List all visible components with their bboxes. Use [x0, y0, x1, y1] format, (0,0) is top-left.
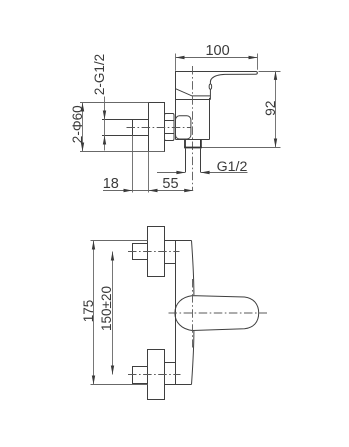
body bottom edge: [176, 139, 210, 141]
body right edge lower: [192, 331, 194, 385]
175 bottom extension line: [91, 384, 148, 386]
body right edge: [209, 98, 211, 140]
18/55 extension line at x132: [132, 136, 134, 193]
dimension 100 line: [176, 56, 258, 59]
svg-text:92: 92: [263, 101, 278, 116]
bottom union centerline: [128, 374, 181, 376]
18/55 dimension line: [103, 189, 193, 192]
body right edge upper: [192, 241, 194, 296]
inlet pipe top edge: [102, 119, 149, 121]
lower view vertical centerline: [192, 279, 194, 348]
inlet pipe bottom edge: [102, 135, 149, 137]
2-Phi60 dimension line: [81, 103, 84, 152]
svg-text:2-G1/2: 2-G1/2: [92, 54, 107, 95]
svg-text:55: 55: [162, 176, 178, 192]
dimension 175 line: [92, 241, 95, 385]
extension line right of 100: [257, 54, 259, 70]
handle capsule lower view: [175, 296, 259, 331]
wall flange rect: [149, 103, 165, 152]
dimension 150+-20 line: [111, 252, 114, 375]
svg-text:175: 175: [81, 300, 96, 323]
extension line top of 92: [259, 71, 281, 73]
svg-text:100: 100: [205, 43, 229, 59]
svg-text:G1/2: G1/2: [217, 159, 248, 175]
body cap slant: [176, 89, 211, 96]
inlet centerline: [127, 127, 191, 129]
inlet pipe divider: [132, 120, 134, 136]
top union nut: [148, 227, 165, 277]
lever handle: [176, 72, 258, 100]
flange bottom extension line: [80, 151, 165, 153]
outlet collar thick: [184, 140, 202, 148]
lever butt ellipse: [209, 84, 212, 89]
bottom union boss: [165, 363, 176, 385]
body left edge: [175, 89, 177, 140]
G1/2 leader arrows: [157, 171, 248, 174]
extension line left of 100: [175, 54, 177, 71]
hex nut top view: [165, 114, 175, 141]
18/55 extension line at x148: [148, 152, 150, 193]
2-G1/2 leader line: [103, 97, 106, 151]
body bottom edge: [176, 384, 192, 386]
svg-text:18: 18: [103, 176, 119, 192]
top wall fitting: [133, 244, 148, 260]
top union centerline: [128, 251, 180, 253]
175 top extension line: [91, 240, 148, 242]
svg-text:150±20: 150±20: [99, 286, 114, 331]
top union boss: [165, 241, 176, 264]
extension line bottom of 92: [201, 147, 281, 149]
body left edge: [175, 241, 177, 385]
lower view horizontal centerline: [169, 312, 268, 314]
bottom union nut: [148, 350, 165, 400]
cartridge boss rounded rect: [176, 116, 191, 139]
body cap seam: [176, 99, 211, 101]
bottom wall fitting: [133, 367, 148, 384]
dimension 92 line: [274, 71, 277, 148]
vertical centerline top view: [192, 66, 194, 191]
outlet pipe: [186, 148, 201, 172]
flange top extension line: [80, 102, 149, 104]
body top edge: [176, 240, 192, 242]
